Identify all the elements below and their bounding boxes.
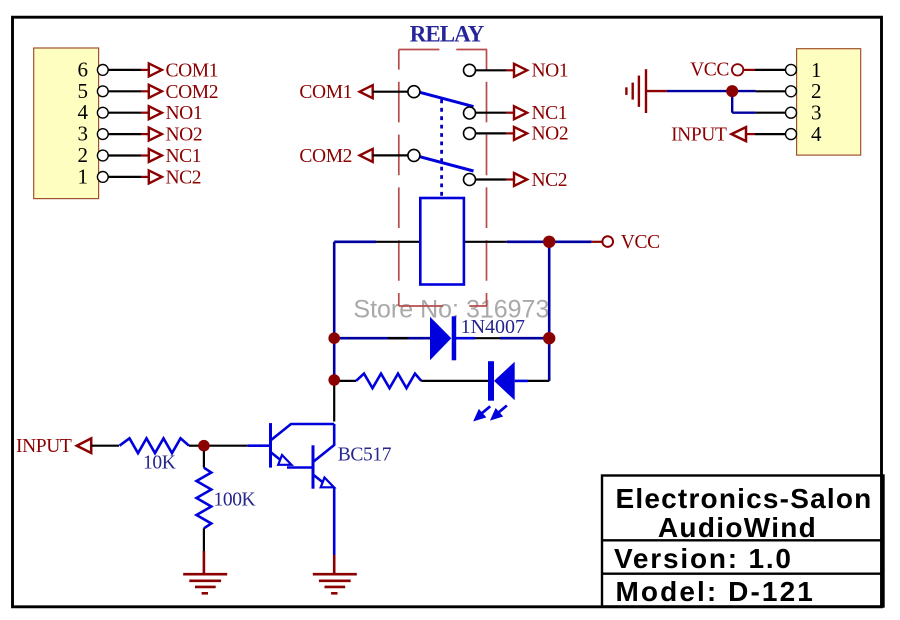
svg-text:6: 6: [78, 57, 89, 81]
svg-text:NC1: NC1: [532, 103, 568, 124]
svg-text:10K: 10K: [143, 452, 176, 473]
svg-text:4: 4: [811, 122, 822, 146]
svg-text:NO1: NO1: [532, 61, 569, 82]
svg-text:5: 5: [78, 79, 89, 103]
svg-text:COM2: COM2: [166, 82, 219, 103]
svg-text:COM1: COM1: [166, 60, 219, 81]
svg-text:3: 3: [78, 122, 89, 146]
svg-text:AudioWind: AudioWind: [658, 512, 817, 543]
svg-text:NC1: NC1: [166, 146, 202, 167]
svg-text:COM2: COM2: [299, 146, 352, 167]
svg-text:Electronics-Salon: Electronics-Salon: [616, 483, 873, 514]
svg-text:Model: D-121: Model: D-121: [616, 576, 815, 607]
svg-text:VCC: VCC: [690, 60, 729, 81]
svg-text:1: 1: [811, 58, 822, 82]
svg-text:NO2: NO2: [166, 125, 203, 146]
svg-text:NC2: NC2: [166, 167, 202, 188]
svg-text:2: 2: [811, 79, 822, 103]
svg-text:NC2: NC2: [532, 170, 568, 191]
svg-text:1N4007: 1N4007: [461, 316, 525, 338]
svg-text:INPUT: INPUT: [16, 436, 72, 457]
svg-text:4: 4: [78, 100, 89, 124]
svg-text:BC517: BC517: [338, 444, 392, 465]
svg-text:NO1: NO1: [166, 103, 203, 124]
svg-text:100K: 100K: [214, 490, 256, 511]
svg-text:Version: 1.0: Version: 1.0: [614, 543, 793, 574]
svg-text:3: 3: [811, 101, 822, 125]
svg-text:VCC: VCC: [621, 232, 660, 253]
svg-text:RELAY: RELAY: [410, 21, 485, 46]
svg-text:1: 1: [78, 164, 89, 188]
svg-text:COM1: COM1: [299, 82, 352, 103]
svg-text:2: 2: [78, 143, 89, 167]
svg-text:INPUT: INPUT: [671, 125, 727, 146]
svg-text:NO2: NO2: [532, 124, 569, 145]
